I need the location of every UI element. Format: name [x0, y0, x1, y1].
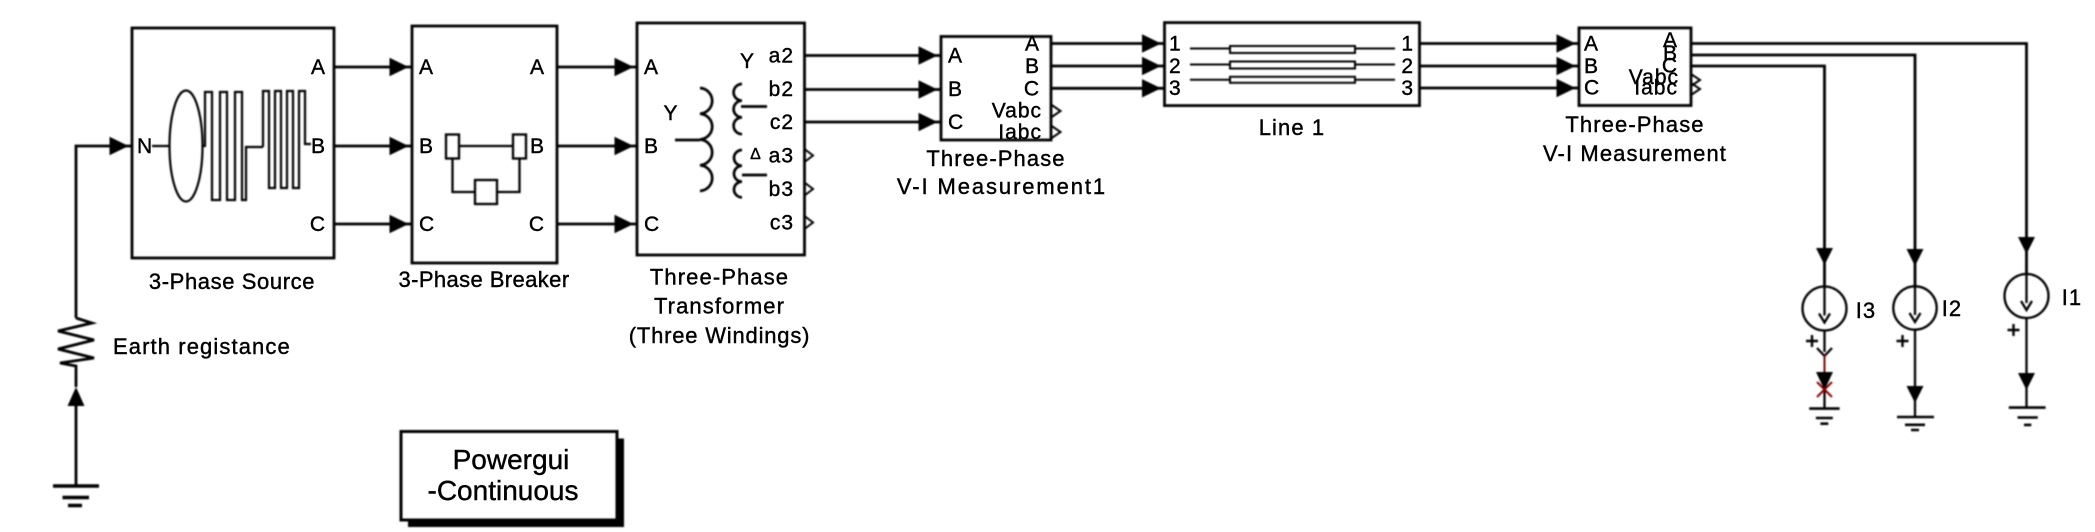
svg-text:C: C — [310, 213, 326, 236]
svg-text:B: B — [1025, 55, 1040, 78]
svg-text:C: C — [419, 213, 435, 236]
svg-text:-Continuous: -Continuous — [428, 475, 579, 506]
svg-text:B: B — [1584, 55, 1599, 78]
svg-text:Vabc: Vabc — [992, 100, 1042, 123]
svg-text:C: C — [644, 213, 660, 236]
svg-text:C: C — [1024, 77, 1040, 100]
svg-text:Line 1: Line 1 — [1259, 115, 1326, 140]
svg-text:A: A — [644, 56, 659, 79]
svg-text:A: A — [948, 45, 963, 68]
svg-text:a2: a2 — [769, 45, 794, 68]
svg-text:A: A — [311, 56, 326, 79]
svg-text:I3: I3 — [1856, 298, 1877, 323]
svg-text:B: B — [419, 135, 434, 158]
svg-text:Earth registance: Earth registance — [113, 334, 291, 359]
svg-text:C: C — [948, 111, 964, 134]
svg-text:A: A — [530, 56, 545, 79]
svg-text:N: N — [137, 135, 153, 158]
svg-text:(Three Windings): (Three Windings) — [629, 323, 811, 348]
svg-text:2: 2 — [1401, 55, 1414, 78]
svg-text:V-I Measurement1: V-I Measurement1 — [897, 174, 1107, 199]
svg-text:B: B — [644, 135, 659, 158]
svg-text:a3: a3 — [769, 145, 794, 168]
svg-text:Δ: Δ — [750, 146, 762, 163]
svg-text:Three-Phase: Three-Phase — [650, 265, 789, 290]
svg-text:A: A — [1025, 33, 1040, 56]
svg-text:2: 2 — [1169, 55, 1182, 78]
svg-text:b2: b2 — [769, 78, 794, 101]
svg-text:b3: b3 — [769, 178, 794, 201]
svg-text:A: A — [1584, 33, 1599, 56]
svg-text:Powergui: Powergui — [453, 444, 570, 475]
svg-text:Three-Phase: Three-Phase — [1565, 112, 1704, 137]
svg-text:c2: c2 — [770, 111, 794, 134]
svg-text:1: 1 — [1169, 33, 1182, 56]
svg-text:Iabc: Iabc — [998, 121, 1042, 144]
svg-text:V-I Measurement: V-I Measurement — [1543, 141, 1727, 166]
svg-text:B: B — [948, 78, 963, 101]
svg-text:3: 3 — [1169, 77, 1182, 100]
svg-text:Y: Y — [740, 50, 755, 73]
svg-text:3-Phase Source: 3-Phase Source — [149, 269, 315, 294]
svg-text:Transformer: Transformer — [654, 294, 785, 319]
svg-text:B: B — [530, 135, 545, 158]
svg-text:A: A — [419, 56, 434, 79]
svg-text:C: C — [529, 213, 545, 236]
svg-text:I2: I2 — [1942, 296, 1963, 321]
svg-text:Y: Y — [663, 102, 678, 125]
svg-text:1: 1 — [1401, 33, 1414, 56]
svg-text:3: 3 — [1401, 77, 1414, 100]
svg-text:Iabc: Iabc — [1634, 77, 1678, 100]
svg-text:c3: c3 — [770, 212, 794, 235]
svg-text:C: C — [1584, 77, 1600, 100]
svg-text:Three-Phase: Three-Phase — [926, 146, 1065, 171]
svg-text:3-Phase Breaker: 3-Phase Breaker — [398, 267, 569, 292]
svg-text:I1: I1 — [2062, 285, 2083, 310]
svg-text:B: B — [311, 135, 326, 158]
